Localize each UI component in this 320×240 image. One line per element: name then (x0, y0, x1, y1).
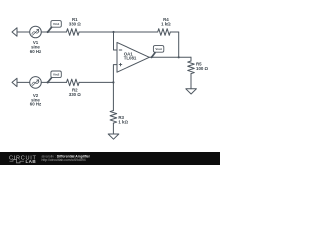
wire R2 to node B (79, 81, 113, 83)
port IN1 (left arrow terminal, row 1) (12, 28, 17, 36)
svg-text:Vout: Vout (155, 47, 161, 51)
node dot Vin1 attach (47, 31, 49, 33)
svg-text:1 kΩ: 1 kΩ (118, 120, 128, 125)
ground (under R5) (186, 89, 197, 94)
junction node A (112, 31, 114, 33)
svg-text:http://circuitlab.com/c/69d894: http://circuitlab.com/c/69d894 (42, 158, 86, 162)
resistor R4 (158, 29, 171, 36)
ground (under R3) (108, 134, 119, 139)
wire op-amp output (149, 56, 191, 58)
svg-text:1 kΩ: 1 kΩ (161, 22, 171, 27)
svg-text:330 Ω: 330 Ω (69, 92, 82, 97)
flag Vin1 pole (48, 27, 52, 32)
voltage source V1 (30, 26, 42, 38)
wire port2 to V2 (17, 81, 30, 83)
flag Vout pole (152, 53, 155, 58)
wire V1 to R1 (41, 31, 66, 33)
op-amp OA1 triangle (117, 42, 149, 72)
svg-text:330 Ω: 330 Ω (69, 22, 82, 27)
svg-text:TL081: TL081 (124, 55, 137, 60)
flag Vin2 box (51, 71, 61, 78)
svg-text:100 Ω: 100 Ω (196, 66, 209, 71)
node dot Vin2 attach (47, 81, 49, 83)
resistor R2 (67, 79, 80, 86)
wire R3 to ground (112, 123, 114, 134)
svg-text:LAB: LAB (26, 159, 37, 164)
wire R4 to feedback corner (170, 31, 178, 33)
wire R5 to ground (190, 74, 192, 89)
svg-text:Vin2: Vin2 (53, 73, 60, 77)
wire feedback vertical (178, 32, 180, 57)
node dot Vout attach (151, 56, 153, 58)
resistor R3 (110, 111, 117, 124)
voltage source V2 (30, 77, 42, 89)
junction node output/feedback (178, 56, 180, 58)
port IN2 (left arrow terminal, row 2) (12, 78, 17, 86)
wire V2 to R2 (41, 81, 66, 83)
wire port1 to V1 (17, 31, 30, 33)
svg-text:60 Hz: 60 Hz (30, 102, 42, 107)
resistor R5 (188, 61, 195, 74)
wire node B down to R3 (112, 82, 114, 110)
wire R1 to R4 (through node A) (79, 31, 158, 33)
wire node B up to op-amp non-inverting input (113, 65, 117, 83)
op-amp minus sign (119, 49, 122, 51)
footer bar (0, 152, 220, 165)
svg-text:Vin1: Vin1 (53, 22, 60, 26)
flag Vin1 box (51, 21, 61, 28)
flag Vin2 pole (48, 78, 52, 83)
flag Vout box (153, 46, 163, 53)
op-amp plus sign (119, 63, 122, 66)
svg-text:60 Hz: 60 Hz (30, 49, 42, 54)
wire node A down to op-amp inverting input (114, 32, 118, 50)
wire output corner down to R5 (190, 57, 192, 61)
resistor R1 (67, 29, 80, 36)
junction node B (112, 81, 114, 83)
